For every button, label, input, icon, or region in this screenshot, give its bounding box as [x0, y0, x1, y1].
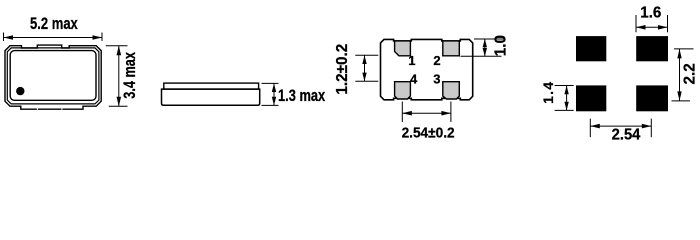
- svg-text:1.3 max: 1.3 max: [278, 88, 326, 106]
- dimension 1.6 lines: [636, 15, 668, 32]
- dimension 3.4 max lines: [106, 46, 128, 106]
- pad 2 (top-right): [443, 41, 460, 56]
- dimension 2.54 lines: [590, 119, 651, 138]
- dimension 5.2 max label: [30, 16, 79, 34]
- land pad bottom-right: [636, 85, 668, 111]
- dimension 2.2 lines: [672, 49, 694, 101]
- svg-text:2.2: 2.2: [682, 63, 699, 84]
- package inner body line (top view): [7, 48, 99, 104]
- svg-text:1.4: 1.4: [540, 81, 556, 104]
- dimension 2.54±0.2 lines: [402, 102, 451, 123]
- base (side view): [162, 89, 260, 105]
- svg-text:2.54: 2.54: [612, 126, 641, 144]
- land pad bottom-left: [576, 85, 606, 111]
- lid (side view): [164, 83, 259, 89]
- lid rounded rectangle (top view): [10, 51, 96, 101]
- svg-text:1: 1: [408, 53, 415, 68]
- svg-text:2.54±0.2: 2.54±0.2: [402, 125, 455, 142]
- svg-text:4: 4: [410, 71, 418, 86]
- wire: lid tab separation marks (bottom edge): [37, 107, 62, 110]
- svg-text:1.6: 1.6: [640, 5, 661, 22]
- svg-text:3: 3: [433, 71, 440, 86]
- pad 4 (bottom-left): [395, 82, 411, 99]
- svg-text:1.2±0.2: 1.2±0.2: [334, 44, 351, 95]
- dimension 1.2±0.2 lines: [355, 55, 378, 81]
- package outer outline (top view): [5, 45, 101, 109]
- dimension 5.2 max lines: [4, 33, 103, 42]
- pad 1 (top-left): [395, 41, 411, 56]
- pad 3 (bottom-right): [443, 82, 460, 99]
- svg-text:3.4 max: 3.4 max: [122, 51, 140, 98]
- svg-text:1.0: 1.0: [492, 35, 509, 56]
- dimension 1.0 lines: [461, 39, 505, 56]
- svg-text:5.2 max: 5.2 max: [30, 16, 79, 34]
- land pad top-left: [576, 36, 606, 61]
- body outline (bottom view): [381, 39, 473, 99]
- dimension 1.4 lines: [555, 86, 574, 111]
- svg-text:2: 2: [433, 53, 440, 68]
- dimension 1.3 max lines: [262, 83, 279, 105]
- pin-1 dot: [16, 87, 24, 95]
- land pad top-right: [636, 36, 668, 61]
